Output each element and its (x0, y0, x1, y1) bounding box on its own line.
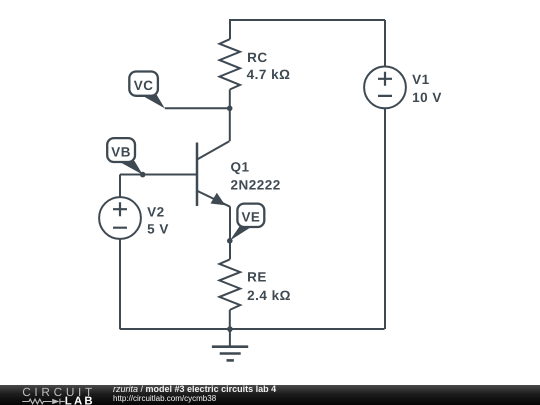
svg-text:RC: RC (247, 50, 268, 65)
svg-text:VB: VB (111, 145, 131, 160)
svg-text:LAB: LAB (65, 395, 95, 405)
svg-text:5 V: 5 V (147, 222, 169, 237)
svg-text:VE: VE (241, 210, 260, 225)
svg-text:2N2222: 2N2222 (231, 178, 281, 193)
svg-text:4.7 kΩ: 4.7 kΩ (247, 67, 291, 82)
svg-text:RE: RE (247, 270, 267, 285)
svg-text:Q1: Q1 (231, 159, 250, 174)
svg-text:VC: VC (134, 78, 154, 93)
svg-text:2.4 kΩ: 2.4 kΩ (247, 288, 291, 303)
svg-text:10 V: 10 V (412, 90, 442, 105)
svg-text:V2: V2 (147, 205, 165, 220)
svg-text:V1: V1 (412, 72, 430, 87)
